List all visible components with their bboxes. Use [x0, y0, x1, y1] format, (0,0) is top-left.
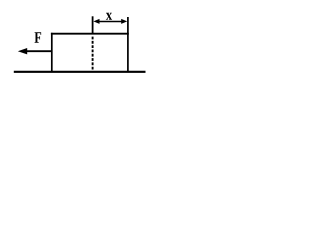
dimension arrowhead right	[121, 19, 127, 24]
label F	[35, 32, 42, 42]
tick solid left	[92, 16, 94, 34]
dimension arrowhead left	[93, 19, 99, 24]
force arrow shaft	[22, 50, 52, 52]
block right edge	[127, 17, 129, 72]
dashed line	[92, 37, 94, 71]
block top edge	[51, 33, 129, 35]
dimension arrow shaft	[96, 21, 125, 23]
force arrowhead	[18, 48, 27, 54]
ground	[14, 71, 146, 73]
label x	[106, 13, 112, 20]
block left edge	[51, 33, 53, 72]
